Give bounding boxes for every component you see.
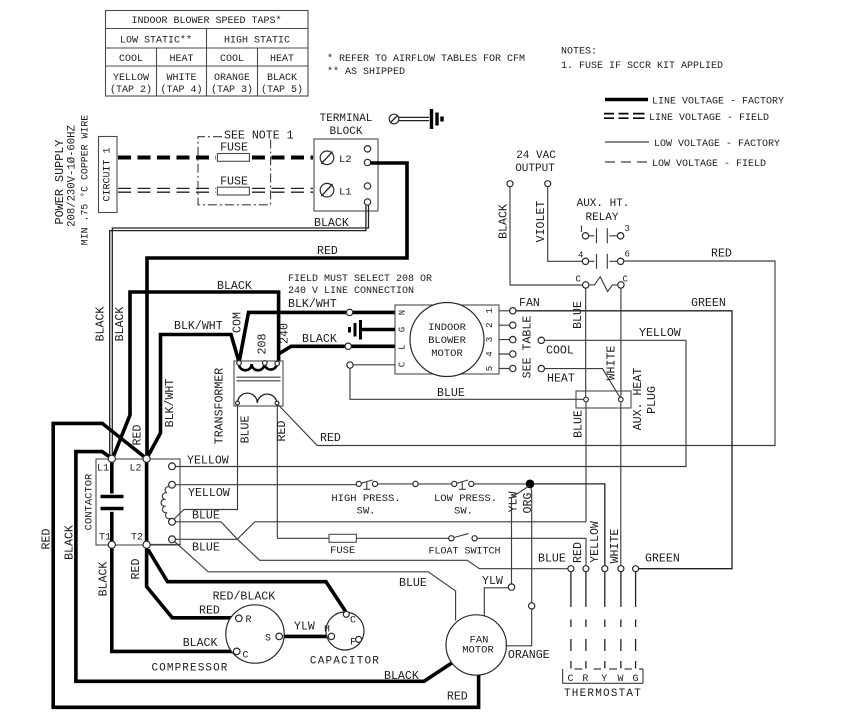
svg-text:RED: RED [276, 421, 289, 442]
float switch [449, 536, 454, 541]
svg-text:BLK/WHT: BLK/WHT [174, 320, 223, 333]
svg-text:R: R [246, 615, 252, 626]
svg-text:MOTOR: MOTOR [431, 348, 463, 360]
thermostat dashed leads [571, 572, 636, 669]
svg-text:BLUE: BLUE [192, 510, 220, 523]
thermostat terminal circles [568, 566, 574, 572]
svg-text:N: N [398, 310, 408, 315]
svg-text:3: 3 [625, 224, 630, 234]
wire BLUE: transformer secondary to contactor coil [174, 405, 238, 520]
svg-text:YLW: YLW [482, 575, 503, 588]
svg-text:YELLOW: YELLOW [639, 327, 681, 340]
svg-text:RED: RED [572, 542, 585, 563]
indoor blower motor M1 [395, 303, 499, 377]
svg-text:C: C [350, 616, 356, 627]
svg-text:HEAT: HEAT [270, 54, 294, 65]
svg-text:LOW PRESS.: LOW PRESS. [434, 493, 497, 505]
svg-text:W: W [617, 674, 623, 685]
svg-text:RED: RED [41, 529, 54, 550]
wire to ground [399, 117, 429, 120]
svg-text:HIGH STATIC: HIGH STATIC [224, 36, 290, 47]
wire: L2 field feed (thick dashed) [118, 156, 216, 160]
svg-text:COOL: COOL [546, 345, 574, 358]
contactor main contact L1-T1 [110, 462, 114, 493]
svg-text:** AS SHIPPED: ** AS SHIPPED [327, 66, 405, 78]
wire: L1 field feed (hollow dashed) [118, 188, 216, 192]
svg-text:CAPACITOR: CAPACITOR [310, 656, 380, 668]
terminal block TB1 [314, 139, 378, 211]
svg-text:MOTOR: MOTOR [462, 645, 494, 657]
svg-text:WHITE: WHITE [606, 346, 619, 381]
svg-text:RED: RED [199, 605, 220, 618]
svg-text:BLUE: BLUE [192, 542, 220, 555]
svg-text:208: 208 [257, 334, 270, 355]
ground screw [389, 114, 399, 124]
motor C pin wire to circle [353, 364, 395, 366]
contactor coil terminal C [169, 518, 176, 525]
transformer secondary terminals [236, 401, 240, 405]
svg-text:T2: T2 [131, 533, 143, 544]
svg-text:BLOWER: BLOWER [428, 335, 467, 347]
chassis ground symbol [430, 109, 433, 129]
legend low voltage field [605, 161, 647, 163]
svg-text:F: F [350, 638, 356, 649]
svg-text:RED/BLACK: RED/BLACK [213, 591, 276, 604]
svg-text:5: 5 [485, 366, 495, 371]
svg-text:WHITE: WHITE [609, 529, 622, 564]
svg-text:COOL: COOL [220, 54, 244, 65]
transformer terminal 240 [275, 361, 280, 366]
svg-text:ORANGE: ORANGE [508, 649, 550, 662]
svg-text:L1: L1 [97, 464, 109, 475]
svg-text:1: 1 [485, 308, 495, 313]
svg-text:Y: Y [601, 674, 607, 685]
high pressure switch [356, 481, 361, 486]
svg-text:GREEN: GREEN [691, 297, 726, 310]
wire: contactor T2 stub to fan blue [150, 544, 181, 546]
legend line voltage factory [605, 98, 648, 102]
contactor coil terminal A [169, 463, 176, 470]
relay contact 4-6 [582, 258, 588, 264]
screw terminal L2 [320, 151, 334, 165]
svg-text:BLUE: BLUE [240, 416, 253, 444]
svg-text:24 VAC: 24 VAC [516, 150, 556, 162]
wire BLACK: 24vac to relay coil [510, 187, 583, 285]
svg-text:TERMINAL: TERMINAL [320, 113, 373, 125]
svg-text:BLACK: BLACK [267, 73, 297, 84]
svg-text:MIN .75 °C COPPER WIRE: MIN .75 °C COPPER WIRE [80, 115, 91, 245]
motor speed tap pins 1-5 [499, 311, 510, 369]
junction terminal [413, 481, 418, 486]
transformer terminal 208 [263, 361, 268, 366]
svg-text:BLK/WHT: BLK/WHT [164, 379, 177, 428]
wire WHITE: heat terminal to aux heat plug [545, 369, 621, 398]
svg-text:YELLOW: YELLOW [589, 521, 602, 563]
ground symbol at motor G pin [348, 327, 351, 333]
svg-text:BLUE: BLUE [399, 577, 427, 590]
heat tap terminal [538, 365, 544, 371]
contactor coil terminal D [169, 536, 176, 543]
svg-text:BLACK: BLACK [114, 307, 127, 342]
see note 1 dash-dot box [198, 137, 271, 205]
wire BLUE: relay C down to plug and contactor coil [585, 288, 587, 522]
svg-text:CIRCUIT 1: CIRCUIT 1 [103, 147, 114, 201]
wire RED: contactor T2 to compressor R [147, 548, 236, 618]
svg-text:HIGH PRESS.: HIGH PRESS. [331, 493, 400, 505]
wire BLUE: junction to thermostat C [237, 539, 568, 569]
svg-text:BLACK: BLACK [217, 280, 252, 293]
svg-text:2: 2 [485, 322, 495, 327]
wire VIOLET: 24vac to relay contact 4 [548, 187, 583, 262]
svg-text:RED: RED [447, 691, 468, 704]
svg-text:HEAT: HEAT [547, 373, 575, 386]
svg-text:NOTES:: NOTES: [561, 47, 597, 58]
svg-text:BLUE: BLUE [437, 387, 465, 400]
svg-text:BLUE: BLUE [538, 553, 566, 566]
svg-text:L2: L2 [339, 154, 352, 166]
svg-text:SW.: SW. [454, 506, 473, 518]
svg-text:(TAP 2): (TAP 2) [110, 84, 152, 96]
transformer secondary winding [238, 393, 278, 403]
svg-text:OUTPUT: OUTPUT [515, 163, 555, 175]
circuit 1 box [99, 137, 118, 213]
svg-text:* REFER TO AIRFLOW TABLES FOR: * REFER TO AIRFLOW TABLES FOR CFM [327, 53, 525, 65]
svg-text:FUSE: FUSE [220, 175, 248, 188]
transformer core [237, 377, 281, 381]
fuse F1 [217, 154, 249, 162]
wire BLUE: motor C to aux heat plug [350, 368, 584, 399]
svg-text:HEAT: HEAT [169, 54, 193, 65]
wire ORG: junction to fan motor [506, 488, 531, 646]
cool tap terminal [538, 337, 544, 343]
wire FAN/GREEN: motor pin 1 to thermostat G [516, 311, 732, 569]
screw terminal L1 [320, 183, 334, 197]
svg-text:4: 4 [485, 351, 495, 356]
svg-text:RELAY: RELAY [585, 212, 618, 224]
svg-text:FAN: FAN [519, 297, 540, 310]
wire BLUE: contactor coil C junction net [175, 522, 586, 540]
svg-text:BLACK: BLACK [98, 562, 111, 597]
svg-text:BLACK: BLACK [302, 333, 337, 346]
terminal block side terminals [364, 146, 370, 152]
svg-text:(TAP 3): (TAP 3) [211, 84, 253, 96]
svg-text:BLACK: BLACK [63, 525, 76, 560]
svg-text:(TAP 5): (TAP 5) [261, 84, 303, 96]
svg-text:SW.: SW. [357, 506, 376, 518]
wire RED: terminal block L2 to contactor L2 [147, 163, 407, 456]
relay contact 1-3 [582, 233, 588, 239]
wire YLW: compressor S to capacitor H [283, 635, 329, 639]
wire BLACK: 240 tap branch to motor L [279, 346, 345, 354]
svg-text:C: C [623, 275, 629, 285]
wire RED: transformer secondary to aux relay contact 6 [278, 261, 775, 446]
svg-text:C: C [243, 651, 249, 662]
svg-text:(TAP 4): (TAP 4) [160, 84, 202, 96]
svg-text:LINE VOLTAGE - FIELD: LINE VOLTAGE - FIELD [649, 113, 769, 124]
wire BLACK: contactor L1 to transformer 240 tap [113, 292, 279, 458]
svg-text:240 V LINE CONNECTION: 240 V LINE CONNECTION [288, 286, 414, 297]
svg-text:LOW VOLTAGE - FACTORY: LOW VOLTAGE - FACTORY [654, 139, 780, 150]
svg-text:POWER SUPPLY: POWER SUPPLY [53, 140, 67, 225]
svg-text:C: C [398, 361, 408, 367]
svg-text:240: 240 [279, 323, 292, 344]
svg-text:G: G [398, 327, 408, 332]
svg-text:FUSE: FUSE [220, 142, 248, 155]
svg-text:BLK/WHT: BLK/WHT [288, 298, 337, 311]
contactor coil terminal B [169, 481, 176, 488]
transformer primary winding [239, 364, 277, 370]
svg-text:4: 4 [578, 251, 583, 261]
svg-text:VIOLET: VIOLET [535, 201, 548, 243]
wire BLACK: contactor L1 to fan motor (left and bottom) [76, 452, 452, 682]
contactor terminal L1 [108, 455, 115, 462]
compressor [151, 605, 284, 675]
contactor terminal T2 [143, 541, 150, 548]
svg-text:CONTACTOR: CONTACTOR [84, 473, 96, 530]
contactor [84, 455, 181, 548]
low pressure switch [452, 481, 457, 486]
wire BLACK double: terminal block L1 to contactor L1 [110, 206, 366, 457]
svg-text:1. FUSE IF SCCR KIT APPLIED: 1. FUSE IF SCCR KIT APPLIED [561, 61, 723, 72]
svg-text:BLOCK: BLOCK [329, 126, 362, 138]
svg-text:BLUE: BLUE [573, 410, 586, 438]
svg-text:AUX. HT.: AUX. HT. [577, 198, 630, 210]
svg-text:BLUE: BLUE [572, 301, 585, 329]
svg-text:BLACK: BLACK [183, 637, 218, 650]
svg-text:INDOOR BLOWER SPEED TAPS*: INDOOR BLOWER SPEED TAPS* [131, 15, 281, 27]
svg-text:RED: RED [132, 425, 145, 446]
relay heater element C-C [583, 282, 589, 288]
svg-text:ORG: ORG [522, 493, 535, 514]
wire BLUE: to fan motor [175, 542, 456, 621]
wire BLACK: contactor T1 to compressor C [112, 548, 233, 651]
svg-text:FLOAT SWITCH: FLOAT SWITCH [428, 547, 500, 558]
svg-text:WHITE: WHITE [166, 73, 196, 84]
wire YELLOW: contactor coil B through pressure switches [175, 484, 356, 486]
svg-text:GREEN: GREEN [645, 553, 680, 566]
svg-text:ORANGE: ORANGE [214, 73, 250, 84]
svg-text:PLUG: PLUG [646, 386, 659, 414]
contactor bus L2-T2 [145, 462, 149, 541]
svg-text:LOW VOLTAGE - FIELD: LOW VOLTAGE - FIELD [652, 159, 766, 170]
junction dot [526, 480, 535, 489]
svg-text:6: 6 [625, 250, 630, 260]
aux heat plug P1 [576, 391, 631, 408]
wire YELLOW: to thermostat Y [534, 484, 604, 566]
svg-text:LINE VOLTAGE - FACTORY: LINE VOLTAGE - FACTORY [652, 97, 784, 108]
svg-text:RED: RED [711, 248, 732, 261]
svg-text:YLW: YLW [294, 621, 315, 634]
capacitor [310, 611, 380, 667]
svg-text:LOW STATIC**: LOW STATIC** [120, 35, 192, 47]
svg-text:YELLOW: YELLOW [113, 73, 149, 84]
svg-text:YELLOW: YELLOW [188, 487, 230, 500]
svg-text:208/230V-1Ø-60HZ: 208/230V-1Ø-60HZ [67, 125, 79, 227]
svg-text:COM: COM [232, 312, 245, 333]
fan motor [446, 615, 506, 675]
svg-text:L2: L2 [130, 464, 142, 475]
svg-text:G: G [632, 674, 638, 685]
table: indoor blower speed taps [106, 11, 309, 97]
svg-text:THERMOSTAT: THERMOSTAT [564, 688, 642, 700]
contactor terminal L2 [143, 455, 150, 462]
svg-text:SEE NOTE 1: SEE NOTE 1 [224, 130, 294, 143]
svg-text:YLW: YLW [508, 492, 521, 513]
wire RED: transformer secondary to fuse line [276, 405, 278, 538]
wire RED/BLACK: contactor T2 to capacitor C [148, 550, 346, 612]
svg-text:COMPRESSOR: COMPRESSOR [151, 663, 228, 675]
svg-text:INDOOR: INDOOR [428, 322, 467, 334]
svg-text:COOL: COOL [119, 54, 143, 65]
wire YELLOW: cool terminal to contactor coil terminal [175, 340, 686, 466]
wire RED: fuse and float switch line to thermostat R [277, 537, 329, 539]
svg-text:BLACK: BLACK [95, 307, 108, 342]
contactor coil [161, 487, 171, 519]
svg-text:C: C [567, 674, 573, 685]
svg-text:L: L [398, 344, 408, 349]
transformer terminal COM [237, 361, 242, 366]
svg-text:T1: T1 [99, 533, 111, 544]
wire YLW: junction to fan motor [484, 486, 529, 617]
legend line voltage field [604, 114, 645, 119]
svg-text:TRANSFORMER: TRANSFORMER [214, 368, 227, 445]
svg-text:FUSE: FUSE [330, 545, 355, 557]
svg-text:RED: RED [320, 432, 341, 445]
svg-text:BLACK: BLACK [314, 217, 349, 230]
wire WHITE: relay C to plug to thermostat W [620, 288, 622, 566]
wire RED: contactor L2 to fan motor (left and bottom) [53, 423, 478, 707]
svg-text:RED: RED [317, 245, 338, 258]
svg-text:RED: RED [130, 559, 143, 580]
svg-text:SEE TABLE: SEE TABLE [522, 316, 535, 379]
svg-text:AUX. HEAT: AUX. HEAT [632, 368, 645, 431]
svg-text:BLACK: BLACK [498, 204, 511, 239]
svg-text:YELLOW: YELLOW [187, 455, 229, 468]
svg-text:C: C [576, 275, 582, 285]
svg-text:H: H [324, 625, 330, 636]
fuse F2 [217, 187, 249, 195]
thermostat box [563, 669, 643, 683]
wire BLK/WHT: contactor L2 to transformer COM [148, 335, 239, 458]
svg-text:R: R [582, 674, 588, 685]
contactor terminal T1 [108, 541, 115, 548]
svg-text:L1: L1 [339, 187, 352, 199]
svg-text:BLACK: BLACK [384, 670, 419, 683]
transformer T1 [214, 312, 292, 444]
svg-text:3: 3 [485, 337, 495, 342]
svg-text:FIELD MUST SELECT 208 OR: FIELD MUST SELECT 208 OR [288, 274, 432, 285]
wire BLK/WHT: transformer COM to motor N [239, 312, 346, 360]
legend low voltage factory [605, 141, 649, 143]
svg-text:S: S [265, 634, 271, 645]
